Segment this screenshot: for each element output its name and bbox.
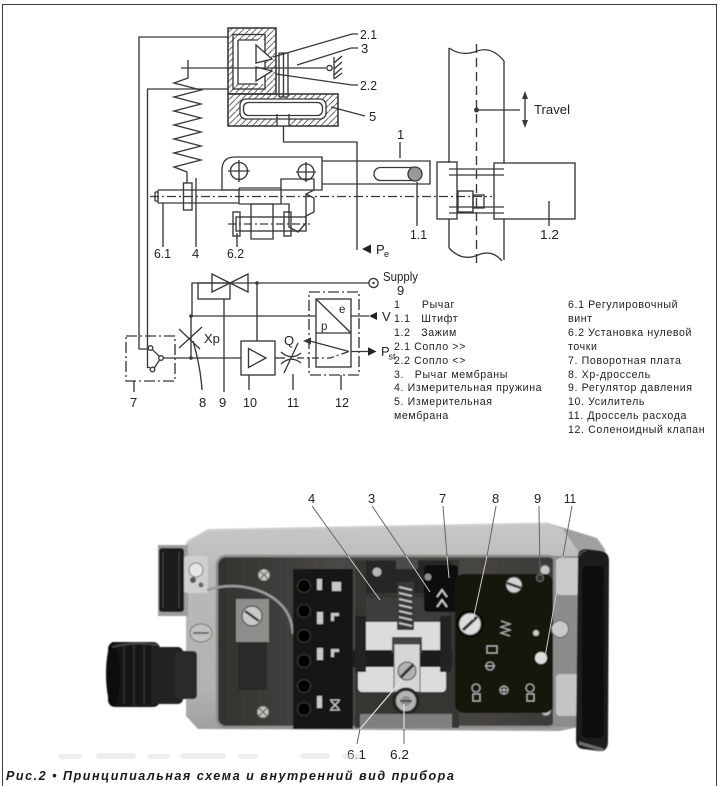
diaphragm housing block <box>228 94 338 127</box>
svg-text:Xp: Xp <box>204 331 220 346</box>
svg-text:7: 7 <box>130 395 137 410</box>
gauge fitting <box>184 556 208 593</box>
svg-text:2.2: 2.2 <box>360 78 377 93</box>
pin centerline <box>228 223 310 225</box>
supply riser <box>192 283 369 316</box>
board symbols <box>317 579 341 710</box>
frame corner screw bottom-right <box>541 706 551 716</box>
vent plug black <box>159 548 184 612</box>
lever bracket <box>222 157 430 190</box>
label 2.1 <box>360 27 377 42</box>
callout 3 <box>372 506 430 592</box>
V output <box>351 312 377 320</box>
label 9 <box>219 395 226 410</box>
svg-text:4: 4 <box>192 246 199 261</box>
label 1 <box>397 127 404 142</box>
frame corner screw top-left <box>258 569 270 581</box>
svg-text:1.2: 1.2 <box>540 227 559 242</box>
clevis bracket <box>281 179 314 232</box>
label 1.1 leader <box>416 182 418 226</box>
frame corner screw bottom-left <box>257 706 269 718</box>
svg-text:p: p <box>321 321 327 333</box>
terminal bracket <box>236 599 269 690</box>
cable gland <box>106 642 197 707</box>
base lip below mechanism <box>360 714 452 728</box>
leader 6.1 <box>162 203 164 247</box>
label 1.2 <box>540 227 559 242</box>
svg-text:5: 5 <box>369 109 376 124</box>
callout 4 <box>312 506 380 600</box>
range spring <box>397 582 414 630</box>
svg-text:1.1: 1.1 <box>410 227 427 242</box>
stem centerline <box>476 44 478 267</box>
label 9 supply <box>397 283 404 298</box>
svg-text:Travel: Travel <box>534 102 570 117</box>
svg-text:9: 9 <box>397 283 404 298</box>
travel indicator <box>475 91 528 128</box>
callout 9 <box>539 506 540 575</box>
pin assembly 6.2 <box>233 204 306 239</box>
leader 2.2 <box>276 74 358 85</box>
callout 7 <box>443 506 449 578</box>
spring nut <box>184 183 193 210</box>
svg-text:3: 3 <box>361 41 368 56</box>
label e in converter <box>339 304 345 316</box>
leader 12 <box>340 375 342 390</box>
callout 6.1 <box>357 681 401 744</box>
solenoid valve 12 box <box>309 292 359 375</box>
svg-text:8: 8 <box>492 491 499 506</box>
number 6.2 <box>390 747 409 762</box>
label 2.2 <box>360 78 377 93</box>
number 8 <box>492 491 499 506</box>
label V <box>382 309 391 324</box>
label 8 <box>199 395 206 410</box>
svg-text:7: 7 <box>439 491 446 506</box>
callout 8 <box>473 506 496 620</box>
positioner housing <box>186 523 608 731</box>
stem clamp 1.2 <box>494 163 575 219</box>
nozzle axis line <box>181 67 326 69</box>
svg-text:8: 8 <box>199 395 206 410</box>
Pst output <box>351 347 377 355</box>
centre mechanism backdrop <box>355 560 459 728</box>
svg-text:Q: Q <box>284 333 294 348</box>
label 1.2 leader <box>548 201 550 226</box>
nozzle clamp 6.1 <box>392 637 422 692</box>
legend right column <box>568 299 705 438</box>
svg-text:11: 11 <box>564 491 576 506</box>
leader 3 <box>297 48 358 65</box>
label 4 <box>192 246 199 261</box>
label 6.1 <box>154 246 171 261</box>
nozzle 2.1 <box>256 45 272 63</box>
label 5 <box>369 109 376 124</box>
svg-text:V: V <box>382 309 391 324</box>
Pe arrow <box>362 245 371 254</box>
svg-text:1: 1 <box>397 127 404 142</box>
label Supply <box>383 269 418 284</box>
svg-text:4: 4 <box>308 491 315 506</box>
pneumatic panel <box>455 574 553 713</box>
svg-text:3: 3 <box>368 491 375 506</box>
svg-text:2.1: 2.1 <box>360 27 377 42</box>
svg-text:e: e <box>339 304 345 316</box>
line amp to valve <box>275 357 285 359</box>
label Xp <box>204 331 220 346</box>
main line to amplifier <box>163 357 241 359</box>
solenoid block <box>424 565 458 612</box>
leader 4 <box>195 178 197 247</box>
side posts <box>355 616 451 672</box>
wire feedback line lower <box>148 89 229 368</box>
leader 5 <box>331 107 365 116</box>
svg-text:6.2: 6.2 <box>227 246 244 261</box>
dashed line into valve <box>297 352 349 359</box>
number 11 <box>564 491 576 506</box>
number 4 <box>308 491 315 506</box>
side step block <box>158 545 188 616</box>
svg-text:6.1: 6.1 <box>154 246 171 261</box>
hinge pillar <box>552 556 585 727</box>
zero adjustment rod 6.1 <box>155 188 281 204</box>
number 6.1 <box>347 747 366 762</box>
bracket screw right <box>296 162 316 182</box>
label 6.2 <box>227 246 244 261</box>
svg-text:9: 9 <box>534 491 541 506</box>
leader 7 <box>133 381 135 392</box>
open cover <box>576 549 609 751</box>
label 1 leader <box>399 142 401 158</box>
label 7 <box>130 395 137 410</box>
label 12 <box>335 395 349 410</box>
pressure regulator 9 <box>198 274 248 299</box>
label Pe <box>376 242 389 259</box>
svg-text:10: 10 <box>243 395 257 410</box>
svg-text:6.2: 6.2 <box>390 747 409 762</box>
signal line to converter <box>189 314 316 318</box>
svg-text:9: 9 <box>219 395 226 410</box>
callout 6.2 <box>403 704 405 744</box>
svg-text:Supply: Supply <box>383 269 418 284</box>
turning plate box 7 <box>126 336 175 381</box>
valve flow path <box>303 338 349 352</box>
measuring spring 4 <box>174 60 201 183</box>
leader 9 <box>223 299 225 392</box>
number 9 <box>534 491 541 506</box>
diaphragm lever plate <box>279 53 288 97</box>
leader 6.2 <box>236 233 238 247</box>
callout numbers <box>308 491 576 762</box>
valve stem <box>449 48 504 261</box>
label 11 <box>287 395 299 410</box>
svg-text:12: 12 <box>335 395 349 410</box>
frame corner screw top-right <box>540 565 550 575</box>
internal wire <box>207 586 293 634</box>
callout 11 <box>545 506 572 657</box>
rod centerline <box>150 196 492 198</box>
i/p converter <box>316 299 351 367</box>
lever bridge <box>366 557 452 593</box>
bracket screw left <box>228 160 250 182</box>
label Pst <box>381 344 396 362</box>
lever slot <box>374 168 420 181</box>
signal line to Pe <box>284 126 358 250</box>
interior recess <box>217 556 557 727</box>
scan smudges <box>58 753 362 759</box>
stem coupling plates <box>437 162 504 219</box>
number 7 <box>439 491 446 506</box>
nozzle 2.2 <box>256 67 272 81</box>
zero screw 6.2 <box>393 688 420 715</box>
Xp throttle 8 <box>179 316 202 390</box>
lever pivot <box>327 56 342 79</box>
terminal board <box>293 569 353 729</box>
svg-text:11: 11 <box>287 395 299 410</box>
amplifier 10 <box>241 341 275 375</box>
label p in converter <box>321 321 327 333</box>
panel symbols <box>472 621 534 701</box>
leader 2.1 <box>273 34 358 57</box>
dark crossbar <box>352 650 452 667</box>
wire feedback line upper <box>139 37 228 349</box>
number 3 <box>368 491 375 506</box>
label 1.1 <box>410 227 427 242</box>
figure caption <box>6 769 455 783</box>
label Q <box>284 333 294 348</box>
pin 1.1 <box>408 167 422 181</box>
flow throttle 11 <box>281 343 301 390</box>
label 10 <box>243 395 257 410</box>
white plate <box>358 598 448 692</box>
label Travel <box>534 102 570 117</box>
amp supply branch <box>255 281 259 341</box>
side screw oval <box>190 624 212 642</box>
supply port <box>369 278 378 287</box>
nozzle block body <box>228 28 276 94</box>
label 3 <box>361 41 368 56</box>
plate pivots <box>148 346 163 372</box>
leader 10 <box>248 375 250 390</box>
svg-text:e: e <box>384 249 389 259</box>
legend left column <box>394 299 542 424</box>
